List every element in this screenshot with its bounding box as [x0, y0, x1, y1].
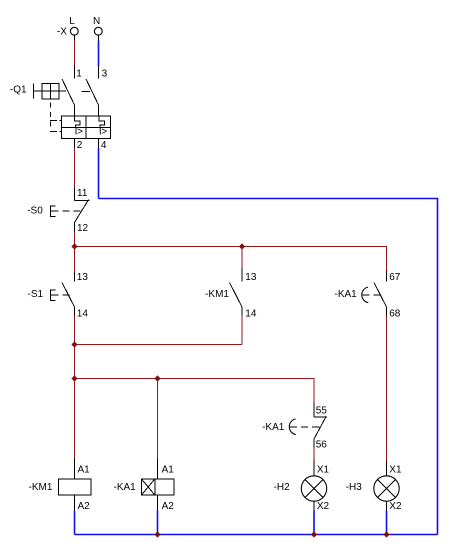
Q1 actuator dashed link — [50, 103, 52, 132]
svg-text:-X: -X — [57, 26, 67, 37]
wire pole2 blade to trip box — [98, 105, 100, 116]
S1 blade — [62, 283, 75, 308]
wire bus1 to KM1 contact — [241, 247, 243, 282]
svg-text:1: 1 — [76, 69, 82, 80]
wire L terminal to Q1 pole1 — [74, 35, 76, 78]
svg-text:13: 13 — [245, 272, 257, 283]
node bottom KA1 — [154, 531, 160, 537]
KA1 67 blade — [374, 283, 387, 308]
pushbutton S0 (NC) — [27, 188, 89, 234]
svg-text:I>: I> — [99, 127, 107, 138]
S0 blade — [75, 200, 89, 223]
wire KA1 coil to blue bus — [157, 495, 159, 535]
S0 seat bar — [75, 199, 90, 201]
svg-text:68: 68 — [389, 309, 401, 320]
Q1 pole link dash — [82, 90, 91, 92]
Q1 thermal hook pole1 — [75, 116, 80, 128]
wire pole1 blade to trip box — [74, 105, 76, 116]
node bottom H2 — [311, 531, 317, 537]
wire bus3 to KA1 coil — [157, 379, 159, 480]
svg-text:56: 56 — [316, 440, 328, 451]
lamp H2 — [274, 465, 330, 512]
coil KA1 — [114, 465, 175, 512]
bus3 horizontal — [75, 378, 315, 380]
svg-text:-KM1: -KM1 — [205, 289, 229, 300]
svg-text:67: 67 — [389, 272, 401, 283]
KA1 55 blade — [314, 416, 326, 439]
svg-text:A2: A2 — [162, 501, 175, 512]
svg-text:-S0: -S0 — [27, 206, 43, 217]
svg-text:X1: X1 — [389, 465, 402, 476]
svg-text:-KA1: -KA1 — [262, 422, 285, 433]
svg-text:14: 14 — [245, 309, 257, 320]
N rail top horizontal — [99, 199, 438, 535]
svg-text:12: 12 — [77, 223, 89, 234]
wire S0 to bus1 — [74, 223, 76, 247]
S0 actuator — [50, 206, 55, 217]
Q1 thermal hook pole2 — [99, 116, 104, 128]
node bus3 left — [71, 375, 77, 381]
Q1 trip unit box — [62, 116, 111, 139]
lamp H3 — [346, 465, 402, 512]
wire bus1 corner to KA1 67 — [386, 246, 388, 282]
wire bus3 to KM1 coil — [74, 379, 76, 480]
wire bus1 to S1 — [74, 247, 76, 282]
wire H3 to blue bus — [386, 501, 388, 534]
svg-text:X2: X2 — [389, 501, 402, 512]
terminal -X:L — [57, 16, 78, 37]
svg-text:-KA1: -KA1 — [335, 289, 358, 300]
svg-text:-KM1: -KM1 — [29, 482, 53, 493]
svg-text:2: 2 — [77, 140, 83, 151]
svg-text:A1: A1 — [162, 465, 175, 476]
Q1 pole2 contact blade (3-4) — [86, 79, 99, 105]
svg-text:11: 11 — [77, 188, 88, 199]
wire bus3 corner down to KA1 55 — [313, 378, 315, 417]
node bottom H3 — [383, 531, 389, 537]
wire Q1 pole1 to S0 — [74, 139, 76, 201]
KA1 arc — [362, 287, 369, 303]
svg-text:I>: I> — [75, 127, 83, 138]
bus1 horizontal — [75, 246, 387, 248]
KM1 blade — [230, 283, 243, 308]
contact KM1 13-14 (NO) — [205, 272, 257, 320]
node bus3 KA1 branch — [154, 375, 160, 381]
Q1 manual actuator handle — [33, 84, 35, 99]
svg-text:-S1: -S1 — [28, 289, 44, 300]
terminal -X:N — [93, 16, 102, 35]
svg-text:A1: A1 — [78, 465, 91, 476]
wire KA1 56 to H2 — [313, 439, 315, 476]
svg-text:X1: X1 — [317, 465, 330, 476]
svg-text:4: 4 — [101, 140, 107, 151]
svg-text:13: 13 — [77, 272, 89, 283]
node bus1 left — [71, 243, 77, 249]
svg-text:L: L — [69, 16, 75, 27]
contact KA1 67-68 (NO relay) — [335, 272, 401, 320]
KA1 55 arc — [289, 419, 296, 435]
contact KA1 55-56 (NC relay) — [262, 406, 327, 451]
breaker Q1 — [10, 69, 111, 152]
wire KA1 68 down to H3 — [386, 307, 388, 476]
wire KM1 contact to bus2 — [241, 307, 243, 345]
pushbutton S1 (NO) — [28, 272, 89, 320]
Q1 pole1 contact blade (1-2) — [62, 79, 75, 105]
svg-text:-KA1: -KA1 — [114, 482, 137, 493]
svg-text:14: 14 — [77, 309, 89, 320]
wire bus2 to bus3 — [74, 345, 76, 379]
svg-text:-H2: -H2 — [274, 482, 291, 493]
svg-text:-H3: -H3 — [346, 482, 363, 493]
bus2 horizontal — [75, 344, 243, 346]
wire S1 to bus2 — [74, 307, 76, 345]
wire Q1 pole2 to N rail — [98, 139, 100, 199]
svg-text:A2: A2 — [78, 501, 91, 512]
svg-text:N: N — [93, 16, 100, 27]
wire N terminal to Q1 pole2 — [98, 35, 100, 78]
S1 actuator — [50, 290, 55, 301]
svg-text:-Q1: -Q1 — [10, 85, 27, 96]
node bus1 KM1 branch — [239, 243, 245, 249]
wire H2 to blue bus — [313, 501, 315, 534]
N bus bottom horizontal — [75, 534, 438, 536]
wire KM1 coil to blue bus — [74, 495, 76, 535]
svg-text:55: 55 — [316, 406, 328, 417]
node bus2 left — [71, 341, 77, 347]
KA1 55 seat bar — [314, 416, 327, 418]
coil KM1 — [29, 465, 91, 512]
svg-text:X2: X2 — [317, 501, 330, 512]
svg-text:3: 3 — [102, 69, 108, 80]
